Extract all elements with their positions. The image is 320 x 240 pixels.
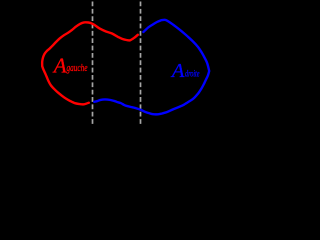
svg-text:gauche: gauche: [67, 62, 88, 74]
svg-text:A: A: [52, 54, 67, 78]
svg-text:droite: droite: [185, 70, 200, 80]
svg-text:A: A: [170, 60, 185, 82]
